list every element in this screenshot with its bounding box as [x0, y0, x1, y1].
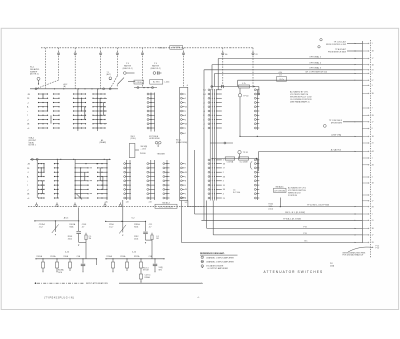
- svg-text:A5: A5: [225, 53, 227, 56]
- node TP 1 SW 100 label: [323, 120, 362, 127]
- rotary wafer S1D frame: [166, 160, 168, 200]
- connector pin 17: [362, 234, 373, 236]
- svg-text:1: 1: [372, 43, 373, 45]
- wire feed from switch to rail1: [78, 208, 80, 221]
- svg-text:1: 1: [202, 257, 203, 259]
- lower shaft contact 3: [74, 203, 76, 207]
- wire arrowhead: [355, 58, 356, 59]
- wafer S2B contact 1: [254, 89, 259, 91]
- wire arrowhead: [355, 234, 356, 235]
- note actuated by volts/div switch: [288, 186, 306, 197]
- connector pin 1B: [362, 182, 374, 184]
- svg-text:17: 17: [372, 58, 374, 60]
- svg-text:250k: 250k: [134, 238, 138, 240]
- rotary wafer S2B frame: [256, 90, 258, 201]
- wafer S2A lower contact 7: [208, 184, 225, 187]
- wire vertical beside S1C: [194, 150, 196, 205]
- label SW1 PULL: [131, 136, 137, 140]
- wire contact bridge: [84, 107, 86, 120]
- wafer S2B contact 8: [254, 119, 259, 121]
- connector pin 3B: [362, 228, 374, 230]
- connector J1 boundary (dashed): [369, 40, 371, 258]
- label pulse probe: [140, 153, 166, 155]
- svg-text:SW A015: SW A015: [276, 185, 284, 188]
- switch contact row S1A-1 6: [27, 115, 60, 118]
- wafer S2B contact 7: [254, 114, 259, 116]
- svg-text:SH 1M: SH 1M: [143, 270, 149, 272]
- rotary switch shaft contact 7: [222, 48, 224, 87]
- rotary switch shaft contact 2: [74, 48, 76, 89]
- resistor R114 deep branch: [140, 270, 151, 283]
- wafer S1B contact 1: [147, 93, 155, 95]
- svg-text:C8: C8: [255, 54, 257, 56]
- wafer S2A contact 9: [203, 123, 222, 126]
- svg-text:(SEE PARAGRAPH 2): (SEE PARAGRAPH 2): [290, 101, 310, 104]
- svg-text:3: 3: [372, 177, 373, 179]
- wire contact bridge: [99, 168, 101, 181]
- switch contact row S1A-2 6: [73, 115, 86, 116]
- wafer S1C contact 13: [181, 171, 187, 174]
- wafer S1D contact 1: [163, 163, 170, 165]
- connector pin 2B: [362, 164, 374, 166]
- wire contact bridge: [80, 168, 82, 198]
- wafer S2B lower contact 10: [254, 197, 259, 199]
- svg-text:(ALT): (ALT): [107, 73, 112, 76]
- wire contact bridge: [50, 115, 52, 124]
- wire bus row 1 to connector: [188, 201, 362, 207]
- wire contact bridge: [84, 172, 86, 181]
- wire contact bridge: [40, 168, 42, 177]
- svg-text:C4-7a: C4-7a: [279, 79, 284, 81]
- wafer S2A contact 1: [203, 89, 222, 92]
- wire attenuator rail 3: [105, 258, 164, 259]
- wafer S1B lower contact 5: [147, 180, 155, 182]
- svg-text:4: 4: [223, 194, 224, 196]
- wafer S2B lower contact 3: [254, 167, 259, 169]
- wire attenuator rail 1b: [105, 221, 146, 222]
- svg-text:B: B: [185, 181, 186, 183]
- svg-text:(SHH 101-1): (SHH 101-1): [123, 68, 133, 70]
- wire TP40 down to row: [239, 97, 240, 137]
- wafer S1C contact 7: [181, 119, 186, 122]
- wafer S1C contact 19: [181, 197, 186, 200]
- wafer S1C contact 14: [181, 176, 186, 179]
- svg-text:OPTIONAL 3: OPTIONAL 3: [309, 67, 322, 70]
- rotary switch shaft contact 4: [116, 48, 118, 76]
- wafer S1C contact 17: [181, 189, 187, 192]
- wafer S2A lower contact 1: [208, 159, 224, 162]
- connector pin 1B: [362, 64, 374, 66]
- connector pin 3B: [362, 93, 374, 95]
- svg-text:3: 3: [185, 98, 186, 100]
- wire group B feeder vertical: [74, 159, 76, 199]
- svg-text:10 M: 10 M: [58, 272, 62, 274]
- switch contact row S1A-2 8: [73, 123, 86, 124]
- switch contact row S1A-2 1: [73, 93, 86, 94]
- wafer S2A contact 6: [203, 110, 222, 113]
- svg-text:18: 18: [223, 185, 225, 187]
- svg-text:1: 1: [372, 158, 373, 160]
- svg-text:R280A: R280A: [145, 276, 151, 279]
- wafer S1D contact 7: [163, 189, 170, 191]
- svg-text:4: 4: [185, 119, 186, 121]
- label SW A1-3 CH 1 VOLTS/DIV boxed: [155, 201, 177, 208]
- wafer S1B lower contact 4: [147, 176, 155, 178]
- label OPTIONAL 5: [309, 55, 322, 58]
- switch contact row S1A-2 3: [73, 102, 86, 103]
- svg-text:HORN SW-B: HORN SW-B: [149, 138, 160, 140]
- svg-text:CHANNEL 1 INPUT AMPLIFIER: CHANNEL 1 INPUT AMPLIFIER: [206, 256, 234, 259]
- wire bus row 2 to connector: [195, 205, 363, 214]
- switch contact row S2A-2 2: [75, 167, 93, 168]
- svg-text:CH 1 OPR SWITCH 500: CH 1 OPR SWITCH 500: [305, 71, 328, 73]
- svg-text:B-2: B-2: [203, 94, 206, 96]
- svg-text:INPUT ATTENUATORS: INPUT ATTENUATORS: [86, 282, 108, 285]
- wire bus row 6 to connector: [181, 201, 362, 243]
- resistor R18 C30M: [239, 157, 249, 163]
- switch contact row S2A-2 6: [75, 185, 89, 186]
- wafer S2B contact 2: [254, 93, 259, 95]
- wafer S2A contact 10: [203, 127, 222, 130]
- svg-text:( T Y P E 4 5 3 P L U G -: ( T Y P E 4 5 3 P L U G - I N ): [44, 297, 74, 299]
- resistor R106A: [50, 255, 59, 272]
- wire diagonal into wafer S1B: [117, 78, 135, 87]
- connector pin A 2: [362, 150, 374, 153]
- svg-text:TP 40: TP 40: [243, 95, 248, 97]
- switch contact row S1A-2 7: [73, 119, 86, 120]
- wafer S1D contact 4: [163, 176, 170, 178]
- legend REFERENCE DESIGNATORS heading: [200, 252, 238, 255]
- net label TP 2) SW 1, LN (TP SW): [307, 205, 329, 207]
- svg-text:TP 2) SW 1, LN (TP SW): TP 2) SW 1, LN (TP SW): [307, 205, 329, 207]
- switch contact row S1A-1 7: [27, 119, 60, 122]
- resistor R100 100k label: [269, 204, 274, 211]
- svg-text:FOR DIGITAL READOUT: FOR DIGITAL READOUT: [343, 254, 365, 257]
- svg-text:SH2: SH2: [159, 269, 162, 271]
- switch contact row S1A-1 5: [27, 110, 60, 113]
- wafer S1C contact 9: [181, 127, 186, 130]
- test point TP41: [238, 151, 248, 159]
- wire arrowhead: [355, 220, 356, 221]
- svg-text:8: 8: [372, 128, 373, 130]
- connector pin 2B: [362, 206, 374, 208]
- resistor R103 250k label: [68, 236, 73, 241]
- switch contact row S2A-1 6: [27, 185, 59, 188]
- resistor R110A: [107, 255, 115, 272]
- svg-text:FROM CONTROL & SW: FROM CONTROL & SW: [326, 44, 346, 46]
- wire row y136 to connector: [240, 136, 362, 137]
- capacitor C107A: [77, 255, 86, 272]
- wafer S2B contact 4: [254, 102, 259, 104]
- wire contact bridge: [103, 103, 105, 116]
- svg-text:250k: 250k: [68, 238, 72, 240]
- wafer S2C contact 9: [97, 197, 108, 198]
- label TYPE 453 PLUG-IN: [44, 297, 74, 299]
- connector pin 17: [362, 200, 373, 202]
- label net1 right values: [89, 236, 92, 240]
- switch contact row S1A-3 9: [92, 127, 105, 128]
- switch contact row S1A-2 5: [73, 110, 86, 111]
- wafer S2B lower contact 1: [254, 159, 259, 161]
- svg-text:D-1 C30M: D-1 C30M: [240, 161, 248, 163]
- wafer S2B contact 10: [254, 127, 259, 129]
- wire arrowhead: [355, 242, 356, 243]
- svg-text:4.7: 4.7: [82, 227, 85, 229]
- wire connector bus vertical: [361, 41, 363, 243]
- label A1-2: [64, 83, 68, 88]
- wire attenuator rail 2: [35, 258, 97, 259]
- label OPTIONAL 4: [309, 62, 322, 65]
- connector pin 23: [362, 220, 373, 222]
- switch contact row S1A-1 9: [27, 127, 60, 129]
- wire arrowhead: [355, 80, 356, 81]
- svg-text:R110A: R110A: [107, 255, 113, 258]
- svg-text:C1 472A: C1 472A: [227, 160, 234, 163]
- switch contact row S1A-3 3: [92, 102, 105, 103]
- svg-text:7: 7: [372, 108, 373, 110]
- rotary switch shaft contact 1: [57, 48, 59, 80]
- svg-text:(SHH 101-2): (SHH 101-2): [151, 68, 161, 70]
- wafer S1B contact 9: [147, 127, 155, 129]
- svg-text:-6: -6: [187, 85, 189, 87]
- wire arrowhead: [355, 73, 356, 74]
- wire link row y143: [210, 142, 233, 144]
- label R113 sub-branch: [143, 267, 149, 271]
- resistor R17 472A: [225, 157, 235, 163]
- resistor R112A: [134, 255, 143, 270]
- wafer S2D contact 8: [124, 193, 131, 195]
- legend item 3 voltage divider and output amplifier: [201, 265, 228, 271]
- wafer S2B lower contact 2: [254, 163, 259, 165]
- wafer S2A lower contact 4: [208, 171, 224, 174]
- label section 9-2: [132, 218, 136, 220]
- label EXT SW-A HORN SW-B: [149, 135, 160, 140]
- wafer S2B contact 9: [254, 123, 259, 125]
- rotary wafer S1B lower frame: [151, 160, 155, 200]
- svg-text:17: 17: [372, 235, 374, 237]
- connector pin 1: [362, 43, 372, 45]
- wafer S1B contact 5: [147, 110, 155, 112]
- svg-text:(PULL): (PULL): [131, 138, 137, 140]
- connector pin 2B: [362, 115, 374, 117]
- label L SW 17A: [331, 133, 341, 136]
- svg-text:2: 2: [185, 111, 186, 113]
- crystal Y1 label left: [123, 63, 133, 70]
- switch contact row S2A-1 8: [27, 193, 59, 196]
- wafer S2A lower contact 10: [208, 197, 225, 200]
- wafer S2C contact 8: [97, 193, 108, 194]
- switch contact row S1A-2 2: [73, 98, 86, 99]
- svg-text:CH 1 VOLTS/DIV: CH 1 VOLTS/DIV: [159, 206, 174, 208]
- net label P B: [303, 233, 307, 235]
- svg-text:B-1 TRIG: B-1 TRIG: [153, 82, 160, 84]
- wafer S1C contact 15: [181, 180, 186, 183]
- wire input attenuators pointer: [35, 282, 203, 285]
- node TP A 2/3 ALT label: [318, 46, 363, 54]
- wafer S2A lower contact 9: [208, 193, 224, 196]
- resistor R111A: [120, 255, 129, 271]
- switch contact row S1A-1 4: [27, 106, 60, 109]
- lower shaft contact 5: [119, 203, 121, 207]
- switch contact row S1A-3 5: [92, 110, 107, 111]
- wafer S1C contact 3: [181, 102, 186, 105]
- switch contact row S2A-1 9: [27, 197, 59, 200]
- svg-text:23: 23: [372, 143, 374, 145]
- switch contact row S1A-1 3: [27, 102, 60, 105]
- rotary switch shaft contact 8: [252, 48, 258, 88]
- svg-text:C110A: C110A: [120, 255, 126, 258]
- switch contact row S1A-3 1: [92, 93, 105, 94]
- switch contact row S1A-2 9: [73, 127, 86, 128]
- wafer S2D contact 4: [124, 176, 131, 178]
- wafer S2B lower contact 6: [254, 180, 259, 182]
- node TP 1 LN 1 ALT label: [320, 39, 363, 47]
- svg-text:+0: +0: [27, 128, 29, 130]
- svg-text:1B: 1B: [185, 107, 187, 109]
- svg-text:A 2: A 2: [372, 150, 375, 153]
- connector pin 1: [362, 213, 372, 215]
- switch contact row S2A-2 5: [75, 180, 93, 181]
- label L-1016: [164, 82, 169, 84]
- wafer S2A lower contact 6: [208, 180, 224, 183]
- svg-text:R-C 100k: R-C 100k: [233, 192, 240, 194]
- wafer S1C contact 10: [181, 132, 186, 135]
- svg-text:17: 17: [223, 168, 225, 170]
- svg-text:(C10): (C10): [269, 208, 274, 210]
- wire ganged switch shaft lower bus (dashed): [28, 206, 205, 208]
- svg-text:1: 1: [185, 94, 186, 96]
- net label P B: [303, 226, 307, 228]
- label SW 1-2 CH 1 VOLTS/DIV: [159, 46, 183, 50]
- svg-text:3: 3: [185, 163, 186, 165]
- svg-text:B-0: B-0: [203, 90, 206, 92]
- rotary wafer S2A frame: [210, 90, 216, 201]
- svg-text:23: 23: [372, 220, 374, 222]
- label values near S2B lower: [233, 190, 240, 194]
- rotary switch shaft contact 6: [182, 48, 184, 88]
- svg-text:TP 41: TP 41: [243, 152, 248, 154]
- wafer S1B lower contact 9: [147, 197, 155, 199]
- svg-text:1/2: 1/2: [279, 75, 281, 77]
- label A1 REAR: [100, 139, 107, 144]
- svg-text:1: 1: [223, 160, 224, 162]
- wafer S1C contact 2: [181, 97, 186, 100]
- svg-text:(NOTE 2): (NOTE 2): [30, 74, 39, 76]
- wire contact bridge: [47, 103, 49, 112]
- label R108 10k: [58, 269, 64, 274]
- label wafer section 5-A: [105, 200, 109, 203]
- wafer S1D contact 3: [163, 171, 170, 173]
- svg-text:900k: 900k: [134, 227, 138, 229]
- svg-text:L-1016: L-1016: [164, 82, 169, 84]
- svg-text:2B: 2B: [185, 124, 187, 126]
- svg-text:7: 7: [185, 168, 186, 170]
- wire contact bridge: [99, 98, 101, 124]
- wafer S2D contact 6: [124, 184, 131, 186]
- wafer S2D contact 3: [124, 171, 131, 173]
- wire row y151.4 to connector: [259, 151, 363, 171]
- svg-text:23: 23: [223, 198, 225, 200]
- wafer S2A lower contact 2: [208, 163, 226, 166]
- svg-text:& OUTPUT AMPLIFIER: & OUTPUT AMPLIFIER: [208, 267, 229, 270]
- wafer S1B lower contact 2: [147, 167, 155, 169]
- connector pin 23: [362, 69, 373, 71]
- label OPTIONAL 3: [309, 67, 322, 70]
- svg-text:-1: -1: [27, 102, 29, 104]
- label A 2 AUTO: [331, 148, 342, 151]
- label shaft contact A5: [225, 53, 227, 56]
- svg-text:TRIGGER: TRIGGER: [157, 154, 166, 156]
- switch contact row S1A-1 1: [27, 93, 60, 96]
- label net2 right values: [156, 236, 159, 240]
- svg-text:4: 4: [185, 185, 186, 187]
- wafer S2B contact 6: [254, 110, 259, 112]
- svg-text:3: 3: [223, 181, 224, 183]
- wire optional 3 to connector: [204, 70, 362, 221]
- connector pin 17: [362, 121, 373, 123]
- svg-text:REFERENCE DESIGNAT:: REFERENCE DESIGNAT:: [200, 252, 225, 255]
- wafer S2C contact 7: [97, 189, 108, 190]
- wafer S2B contact 3: [254, 97, 259, 99]
- rotary wafer S2D frame: [127, 160, 131, 200]
- switch contact row S1A-1 2: [27, 98, 60, 101]
- switch contact row S2A-1 3: [27, 172, 59, 175]
- capacitor C103 on branch: [76, 221, 86, 243]
- rotary wafer S2C frame: [106, 160, 108, 201]
- connector pin 2: [362, 194, 372, 196]
- resistor R111A 900k label: [134, 223, 140, 229]
- wafer S1B lower contact 3: [147, 171, 155, 173]
- wire diagonal feed to rail left: [38, 80, 59, 88]
- wire contact bridge: [102, 177, 104, 190]
- switch contact row S2A-2 1: [75, 163, 98, 164]
- svg-text:ATTENUATOR SWITCHES: ATTENUATOR SWITCHES: [264, 270, 324, 274]
- svg-text:SW A1-3: SW A1-3: [162, 201, 169, 204]
- svg-text:FROM SWITCH SIDE: FROM SWITCH SIDE: [328, 52, 347, 54]
- label CH 1 OPR SWITCH 500: [305, 71, 328, 73]
- wafer S2A contact 8: [203, 119, 222, 122]
- label S1A-2 FRONT note: [29, 137, 37, 147]
- svg-text:NOTE 1: NOTE 1: [29, 145, 37, 147]
- wafer S2B lower contact 9: [254, 193, 259, 195]
- svg-text:17: 17: [372, 122, 374, 124]
- switch contact row S1A-3 8: [92, 123, 107, 124]
- wafer S2B lower contact 4: [254, 171, 259, 173]
- svg-text:-4-: -4-: [197, 297, 200, 299]
- resistor R113 branch: [151, 233, 153, 240]
- svg-text:7: 7: [27, 115, 28, 117]
- wafer S1B lower contact 7: [147, 188, 155, 190]
- svg-text:27: 27: [372, 80, 374, 82]
- wafer S1D contact 9: [163, 197, 170, 199]
- wafer S1C contact 11: [181, 163, 186, 166]
- wire bus row 5 to connector: [213, 201, 362, 235]
- svg-text:1: 1: [185, 133, 186, 135]
- wafer S2A contact 4: [203, 102, 222, 105]
- wafer S1C contact 20: [181, 197, 186, 200]
- legend item 1 channel 1 input amplifier: [201, 256, 234, 259]
- wafer S1B contact 2: [147, 97, 155, 99]
- capacitor C112A: [149, 255, 158, 272]
- svg-text:A 2 (AUTO): A 2 (AUTO): [331, 148, 342, 151]
- wafer S1B contact 7: [147, 119, 155, 121]
- svg-text:PULSE: PULSE: [140, 153, 147, 155]
- wire S1A section rail: [30, 88, 118, 90]
- rotary switch shaft contact 3: [100, 48, 102, 89]
- wire bus row 4 to connector: [207, 201, 363, 229]
- svg-text:+ LT(?): + LT(?): [141, 148, 147, 150]
- svg-text:900k: 900k: [69, 227, 73, 229]
